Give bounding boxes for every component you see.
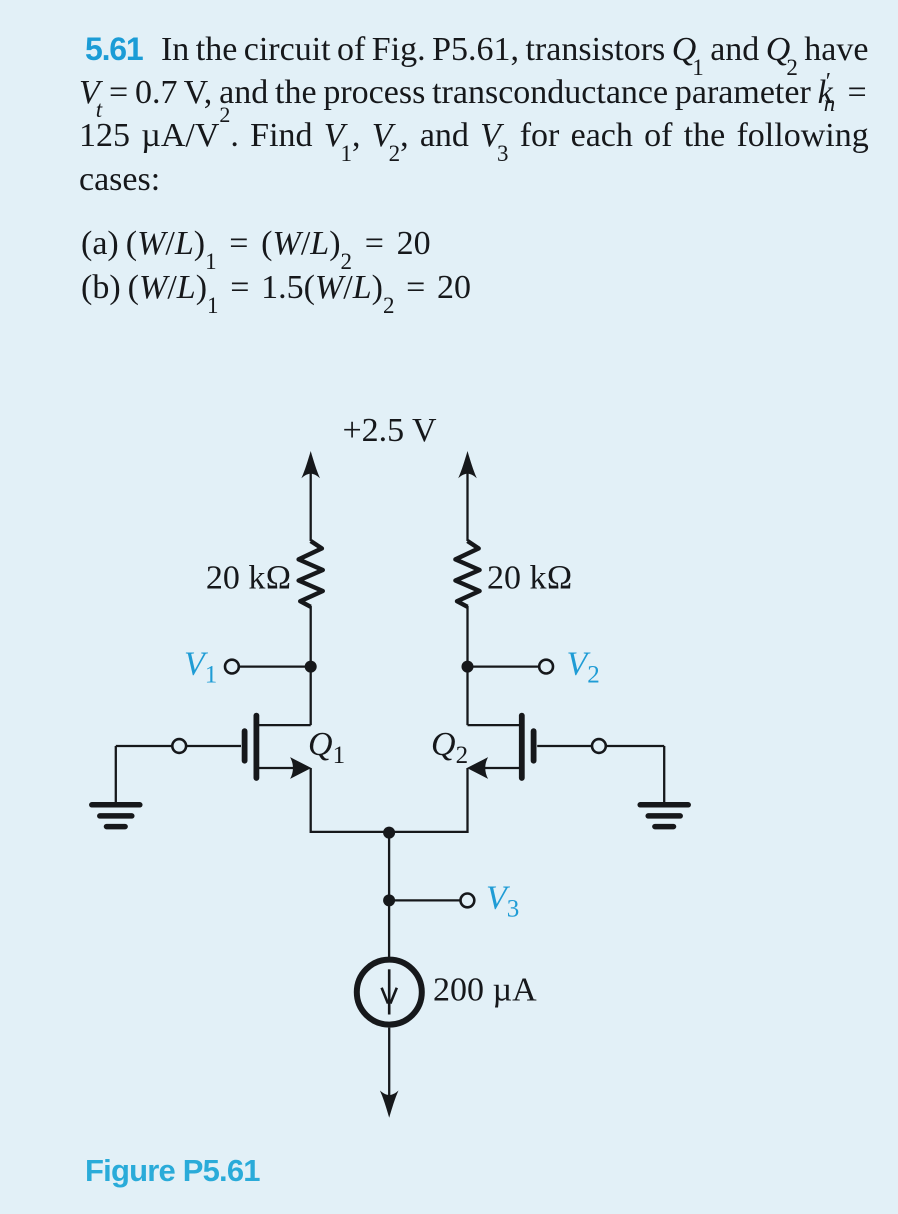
svg-text:Q2: Q2 [431,726,468,769]
svg-text:200 µA: 200 µA [433,972,537,1009]
svg-text:+2.5 V: +2.5 V [342,412,437,449]
svg-text:20 kΩ: 20 kΩ [487,560,573,597]
svg-text:20 kΩ: 20 kΩ [206,560,292,597]
svg-text:V2: V2 [567,646,600,689]
svg-text:V1: V1 [184,646,217,689]
svg-text:V3: V3 [486,880,519,923]
svg-text:Q1: Q1 [308,726,345,769]
